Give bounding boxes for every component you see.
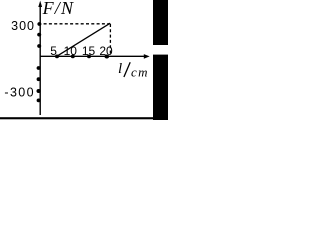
y-axis dot -400 xyxy=(37,99,41,103)
y-axis dot -100 xyxy=(37,66,41,70)
data line F = k(l-5) xyxy=(57,23,110,56)
axis label l/cm : slash xyxy=(124,62,130,77)
y-axis dot +300 xyxy=(37,22,41,26)
x-axis dot l=20 xyxy=(104,55,109,59)
svg-text:l: l xyxy=(118,61,122,77)
bottom border line xyxy=(0,117,168,119)
y-axis dot -200 xyxy=(37,77,41,81)
svg-text:-300: -300 xyxy=(4,85,35,99)
y-axis xyxy=(39,3,41,115)
y-axis arrowhead xyxy=(38,1,42,7)
x-axis dot l=5 xyxy=(55,55,59,59)
x-axis dot l=10 xyxy=(71,55,75,59)
dashed vertical at l=20 xyxy=(109,24,111,55)
x-axis dot l=15 xyxy=(87,55,91,59)
y-axis dot +100 xyxy=(37,44,41,48)
y-axis dot +200 xyxy=(37,33,41,37)
x-axis xyxy=(40,55,147,57)
black sidebar bottom block xyxy=(153,55,168,120)
dashed line at F=300 xyxy=(44,23,111,25)
svg-text:300: 300 xyxy=(11,19,35,33)
x-axis arrowhead xyxy=(144,54,150,59)
svg-text:F/N: F/N xyxy=(42,0,75,18)
svg-text:cm: cm xyxy=(131,65,149,80)
black sidebar top block xyxy=(153,0,168,45)
y-axis dot -300 xyxy=(37,89,41,93)
